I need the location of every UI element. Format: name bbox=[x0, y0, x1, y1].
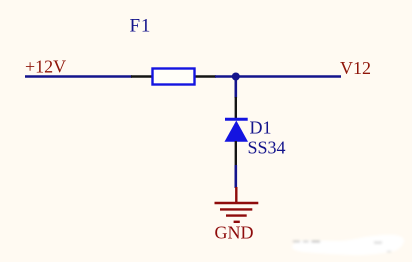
diode D1 bottom pin bbox=[235, 141, 237, 166]
svg-text:SS34: SS34 bbox=[248, 138, 286, 158]
fuse F1 body bbox=[153, 69, 195, 85]
svg-text:F1: F1 bbox=[130, 15, 152, 36]
diode D1 cathode bar bbox=[225, 118, 248, 121]
wire junction to diode (blue part) bbox=[235, 77, 238, 99]
svg-text:D1: D1 bbox=[250, 118, 272, 138]
ground stub bbox=[235, 187, 237, 203]
ground bar 1 bbox=[215, 202, 259, 204]
junction node bbox=[232, 73, 240, 81]
fuse F1 right pin bbox=[195, 75, 216, 77]
ground bar 3 bbox=[226, 214, 247, 216]
wire +12V left segment bbox=[25, 75, 132, 78]
ground bar 4 bbox=[234, 221, 240, 223]
wire diode to ground (blue part) bbox=[235, 165, 238, 188]
ground bar 2 bbox=[220, 208, 252, 210]
wire right segment to V12 bbox=[215, 75, 341, 78]
svg-text:V12: V12 bbox=[340, 58, 371, 78]
svg-text:GND: GND bbox=[215, 223, 254, 243]
diode D1 body (triangle) bbox=[225, 121, 249, 142]
fuse F1 left pin bbox=[131, 75, 152, 77]
svg-text:+12V: +12V bbox=[25, 57, 66, 77]
diode D1 top pin bbox=[235, 97, 237, 119]
